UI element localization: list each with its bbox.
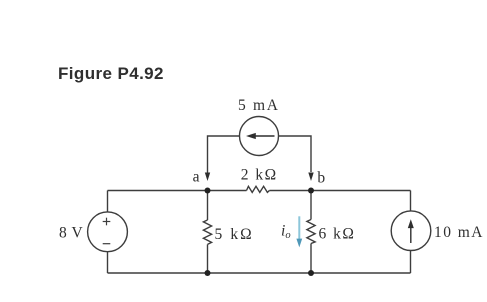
svg-text:10 mA: 10 mA: [434, 224, 484, 241]
svg-text:b: b: [317, 169, 325, 186]
svg-text:io: io: [281, 222, 291, 241]
svg-text:Figure P4.92: Figure P4.92: [58, 64, 164, 83]
svg-text:5 kΩ: 5 kΩ: [215, 226, 254, 243]
svg-text:a: a: [193, 168, 200, 185]
svg-text:5 mA: 5 mA: [238, 97, 280, 114]
svg-text:2 kΩ: 2 kΩ: [241, 167, 278, 184]
svg-text:8 V: 8 V: [59, 224, 84, 241]
svg-text:6 kΩ: 6 kΩ: [319, 225, 356, 242]
